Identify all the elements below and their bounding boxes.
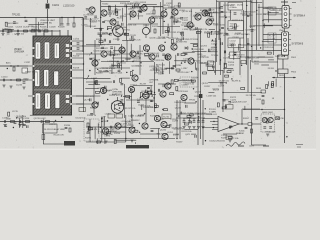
resistor R1209 bbox=[116, 11, 118, 15]
junction dots cluster bbox=[100, 17, 101, 18]
node dot bbox=[275, 70, 276, 71]
wire bbox=[183, 51, 195, 53]
capacitor C1266 bbox=[23, 124, 26, 125]
capacitor C1202 bbox=[84, 17, 87, 18]
wire bbox=[94, 127, 96, 140]
capacitor C1203 bbox=[17, 30, 18, 33]
wire x131.5 bbox=[131, 93, 133, 118]
wire bbox=[201, 62, 210, 64]
node junction bbox=[192, 48, 193, 49]
bottom right marks bbox=[238, 145, 269, 147]
wire rail x219 bbox=[218, 2, 220, 40]
capacitor C1262 bbox=[180, 112, 181, 115]
module left edge pin notches bbox=[33, 47, 35, 49]
capacitor C1246 bbox=[14, 122, 17, 123]
wire bbox=[138, 13, 140, 20]
wire bbox=[111, 64, 113, 75]
wire bbox=[268, 59, 274, 61]
wire bbox=[30, 114, 38, 116]
node junction bbox=[151, 93, 152, 94]
capacitor C1270 bbox=[232, 44, 233, 47]
wire to dashed box bbox=[252, 123, 261, 125]
delay line outline DL1201 bbox=[43, 124, 58, 133]
resistor R1245 bbox=[167, 28, 169, 32]
capacitor C1215 bbox=[77, 43, 80, 44]
capacitor C1268 bbox=[95, 81, 96, 84]
capacitor C1280 bbox=[4, 120, 5, 123]
wire bbox=[88, 83, 100, 85]
capacitor C1226 bbox=[171, 16, 174, 17]
resistor R1241 bbox=[189, 114, 193, 116]
capacitor C1246 bbox=[185, 53, 188, 54]
diode D1211 bbox=[87, 131, 90, 134]
wire bbox=[96, 138, 98, 144]
wire bbox=[90, 18, 92, 28]
resistor R1245 bbox=[184, 123, 188, 125]
wire y138.5 bbox=[100, 138, 175, 140]
filter can FL5 bbox=[44, 70, 49, 87]
wire vertical x100.7 bbox=[100, 0, 102, 45]
capacitor C1243 bbox=[197, 68, 198, 71]
wire Q1207 to Q1208 bbox=[107, 53, 130, 55]
wire bbox=[167, 24, 169, 36]
wire x36 stub bbox=[35, 18, 37, 32]
capacitor C1214 bbox=[115, 28, 118, 29]
capacitor C1201 bbox=[86, 9, 89, 10]
wire bbox=[183, 117, 196, 119]
filter can FL9 bbox=[55, 94, 60, 109]
wire bbox=[163, 141, 165, 143]
wire y8 bbox=[163, 7, 220, 9]
bottom right tiny marks bbox=[296, 145, 303, 148]
capacitor C1258 bbox=[101, 117, 102, 120]
capacitor C1252 bbox=[247, 15, 250, 16]
transistor Q1209 bbox=[143, 45, 149, 51]
transistor Q1211 bbox=[165, 54, 171, 60]
wire y134 bbox=[223, 133, 237, 135]
transistor Q602 bbox=[268, 117, 273, 122]
capacitor C1252 bbox=[224, 51, 225, 54]
pot VR1201 arrow bbox=[87, 76, 90, 80]
node dot bbox=[246, 5, 247, 6]
resistor R1285 bbox=[97, 141, 101, 143]
wire bbox=[22, 115, 24, 128]
wire y100 bbox=[126, 99, 154, 101]
wire bbox=[102, 87, 104, 93]
node junction bbox=[106, 134, 107, 135]
pin 2 bbox=[284, 38, 287, 41]
wire bbox=[85, 88, 99, 90]
capacitor C1239 bbox=[118, 70, 121, 71]
resistor R1226 bbox=[176, 87, 178, 91]
resistor box R1251 bbox=[208, 67, 214, 71]
transistor Q1213 bbox=[128, 86, 134, 92]
node junction bbox=[214, 71, 215, 72]
dashed box bottom left bbox=[84, 119, 99, 141]
junction dot bbox=[239, 44, 240, 45]
wire corner x83 bbox=[82, 18, 84, 53]
node junction bbox=[191, 71, 192, 72]
wire x248 bbox=[247, 38, 249, 92]
resistor R1226 bbox=[174, 20, 178, 22]
capacitor C1282 bbox=[221, 42, 222, 45]
wire x83.5 down bbox=[83, 18, 85, 113]
arrow comp bbox=[89, 53, 92, 56]
node junction bbox=[198, 116, 199, 117]
diode D1201 bbox=[185, 47, 188, 50]
wire y96 bbox=[76, 95, 100, 97]
wire rail x216.5 bbox=[216, 0, 218, 62]
bottom wire y143 bbox=[252, 144, 267, 146]
wire rail x243.5 bbox=[243, 10, 245, 38]
wire bbox=[111, 64, 122, 66]
capacitor C1270 bbox=[262, 95, 265, 96]
jumper box JW602 bbox=[278, 69, 288, 74]
capacitor C1228 bbox=[182, 37, 183, 40]
capacitor C1212 bbox=[228, 102, 231, 103]
capacitor C1207 bbox=[61, 24, 64, 25]
capacitor C1242 bbox=[213, 66, 214, 69]
capacitor C1240 bbox=[190, 121, 191, 124]
capacitor C1239 bbox=[234, 28, 237, 29]
long vertical wire x284.5 bbox=[284, 74, 286, 144]
node junction bbox=[97, 69, 98, 70]
wire bbox=[223, 68, 233, 70]
node junction bbox=[226, 82, 227, 83]
cap stub 3 bbox=[193, 118, 195, 121]
capacitor C1206 bbox=[122, 23, 123, 26]
wire x240 bbox=[239, 38, 241, 75]
wire y24 mid bbox=[128, 23, 158, 25]
wire y44.5 bbox=[86, 44, 120, 46]
resistor R1211 bbox=[17, 79, 21, 81]
transistor Q1241 bbox=[206, 19, 212, 25]
capacitor C1241 bbox=[137, 101, 140, 102]
capacitor C1202 bbox=[2, 30, 3, 33]
coil T1204 labeled box bbox=[228, 21, 244, 31]
cap stub 4 bbox=[198, 118, 200, 121]
node dot bbox=[139, 6, 140, 7]
wire x110 bbox=[109, 7, 111, 17]
capacitor C1209 bbox=[158, 89, 159, 92]
node dot bbox=[224, 15, 225, 16]
capacitor C1208 bbox=[100, 34, 101, 37]
scan edge bottom strip bbox=[0, 149, 316, 150]
wire x220.5 bbox=[220, 38, 222, 75]
top right corner mark bbox=[292, 2, 296, 4]
wire bbox=[141, 105, 143, 110]
node junction bbox=[205, 140, 206, 141]
wire bbox=[130, 44, 132, 56]
scan noise overlay bbox=[0, 0, 316, 150]
wire +24V bus y17 bbox=[0, 17, 83, 19]
capacitor C1298 bbox=[105, 86, 106, 89]
wire top border segment bbox=[101, 0, 252, 2]
wires into connector A bbox=[263, 9, 282, 26]
resistor R1205 bbox=[108, 26, 112, 28]
ground gnd3 bbox=[2, 85, 5, 87]
node junction bbox=[286, 136, 287, 137]
capacitor C1220 bbox=[133, 5, 134, 8]
wire x90 bbox=[89, 119, 91, 142]
wire bbox=[191, 133, 196, 135]
node junction bbox=[100, 127, 101, 128]
resistor R1213 bbox=[182, 32, 184, 36]
wire bbox=[175, 55, 177, 68]
stub x74 bbox=[73, 18, 75, 24]
capacitor C1251 bbox=[13, 22, 16, 23]
capacitor C602 bbox=[269, 127, 272, 128]
transistor Q1221 bbox=[154, 115, 160, 121]
capacitor C1231 bbox=[171, 68, 174, 69]
node junction bbox=[193, 88, 194, 89]
wire y66 bbox=[0, 65, 28, 67]
capacitor C601 bbox=[263, 127, 266, 128]
wire between boxes bbox=[282, 59, 284, 69]
node junction bbox=[165, 9, 166, 10]
capacitor C1222 bbox=[180, 18, 183, 19]
wire bbox=[121, 77, 130, 79]
handwritten mark bbox=[226, 142, 245, 146]
capacitor C1202 bbox=[139, 11, 142, 12]
wire bbox=[262, 41, 274, 43]
wire x160.5 bbox=[160, 2, 162, 36]
wire bbox=[29, 23, 45, 25]
resistor right of opamp bbox=[251, 129, 253, 133]
delta mark bbox=[150, 89, 152, 91]
node dot bbox=[83, 63, 84, 64]
resistor R1218 bbox=[205, 13, 209, 15]
junction dots on x246.7 bbox=[246, 34, 247, 35]
capacitor C1252 bbox=[163, 84, 164, 87]
wire x246.7 bbox=[246, 0, 248, 65]
capacitor C1225 bbox=[137, 51, 138, 54]
transistor Q1206 bbox=[202, 10, 208, 16]
transistor Q1216 bbox=[160, 91, 166, 97]
transistor Q1224 bbox=[161, 11, 167, 17]
wire x251.5 bbox=[251, 75, 253, 145]
delay line DL1 bbox=[22, 68, 28, 73]
wire bbox=[121, 8, 123, 22]
resistor R1244 bbox=[8, 112, 10, 116]
wire y61.5 bbox=[101, 61, 154, 63]
resistor R1270 bbox=[262, 100, 264, 104]
component column x263 bbox=[261, 90, 266, 93]
wire x198 bbox=[197, 30, 199, 145]
coil L1205 labeled box bbox=[228, 2, 243, 10]
wire y78.4 bbox=[84, 77, 111, 79]
wire x256.7 bbox=[252, 0, 257, 62]
wire bbox=[97, 123, 99, 133]
wire bbox=[115, 5, 117, 15]
resistor R1233 bbox=[171, 39, 173, 43]
transistor Q1217 bbox=[181, 94, 187, 100]
transistor Q1210 bbox=[159, 45, 165, 51]
filter can FL4 bbox=[35, 70, 40, 87]
wire x163 vertical bbox=[162, 0, 164, 34]
capacitor C1209 bbox=[205, 10, 206, 13]
wire bbox=[230, 44, 236, 46]
capacitor C1265 bbox=[121, 100, 124, 101]
transistor Q1220 bbox=[142, 123, 148, 129]
node junction bbox=[132, 70, 133, 71]
wire bbox=[253, 25, 273, 27]
wire x220 bbox=[219, 2, 221, 65]
caps column x152 bbox=[151, 100, 154, 101]
wire x277.5 bbox=[277, 55, 279, 78]
wire block right y78 bbox=[76, 77, 84, 79]
capacitor C1222 bbox=[109, 40, 110, 43]
capacitor C1281 bbox=[19, 120, 20, 123]
capacitor C1206 bbox=[109, 34, 112, 35]
IF transformer T1201 bbox=[113, 26, 124, 37]
resistor R1296 bbox=[120, 78, 122, 82]
capacitor C1278 bbox=[169, 125, 172, 126]
wire bbox=[192, 51, 207, 53]
wire bbox=[204, 12, 220, 14]
wire bbox=[261, 64, 269, 66]
node junction bbox=[122, 60, 123, 61]
resistor R1282 bbox=[26, 121, 30, 123]
wire bbox=[113, 54, 115, 67]
wire bbox=[168, 61, 170, 74]
node junction bbox=[181, 62, 182, 63]
wire y127 bbox=[86, 126, 125, 128]
filter can FL3 bbox=[54, 43, 59, 59]
ground gnd8 bbox=[18, 125, 21, 127]
delta mark bbox=[150, 100, 152, 102]
node dot bbox=[176, 138, 177, 139]
node junction bbox=[107, 99, 108, 100]
transistor Q1239 bbox=[171, 44, 177, 50]
node junction bbox=[107, 29, 108, 30]
resistor R1260 bbox=[96, 81, 98, 85]
capacitor C1253 bbox=[251, 30, 254, 31]
wire bbox=[110, 50, 112, 57]
wire bbox=[190, 42, 198, 44]
wire bbox=[3, 28, 14, 30]
resistor R1236 bbox=[193, 45, 197, 47]
transistor Q1230 bbox=[89, 7, 95, 13]
wire x95 bbox=[94, 40, 96, 75]
wire x126.7 vertical bbox=[126, 7, 128, 40]
wire bbox=[223, 63, 225, 73]
resistor R1233 bbox=[126, 95, 130, 97]
capacitor C1271 bbox=[110, 126, 111, 129]
wire bbox=[238, 44, 240, 51]
wire y121.5 bus bbox=[0, 121, 71, 123]
transistor Q1202 bbox=[130, 11, 136, 17]
resistor R1251 bbox=[118, 104, 122, 106]
node dot bbox=[213, 121, 214, 122]
resistor R1251 bbox=[145, 53, 149, 55]
node junction bbox=[144, 113, 145, 114]
caption strip bbox=[126, 145, 149, 148]
label boxes x163 bbox=[162, 114, 171, 119]
ground gnd4 bbox=[9, 86, 12, 88]
node junction bbox=[139, 132, 140, 133]
module mid light seams bbox=[34, 64, 70, 66]
resistor R1250 bbox=[225, 75, 229, 77]
wire bbox=[143, 94, 156, 96]
wire bbox=[18, 118, 20, 128]
transistor Q1237 bbox=[92, 102, 98, 108]
resistor R1290 bbox=[87, 123, 89, 127]
wire y77 with dots bbox=[272, 77, 296, 79]
pin 4 bbox=[284, 49, 287, 52]
node dot bbox=[256, 10, 257, 11]
wire bbox=[177, 80, 194, 82]
wire y84 bbox=[158, 83, 176, 85]
wire bbox=[104, 138, 106, 144]
wire x47.5 stub bbox=[47, 18, 49, 29]
resistor R1283 bbox=[114, 140, 116, 144]
label box under block right bbox=[79, 108, 86, 112]
wire y92.5 right bbox=[223, 92, 262, 94]
capacitor C1288 bbox=[121, 83, 124, 84]
wire y46 bbox=[84, 45, 100, 47]
wire bbox=[233, 47, 235, 59]
resistor R1209 bbox=[73, 23, 75, 27]
pin 3 bbox=[284, 44, 287, 47]
wire x127 bbox=[126, 40, 128, 62]
node dot bbox=[126, 6, 127, 7]
capacitor C1240 bbox=[97, 102, 98, 105]
capacitor C1286 bbox=[122, 104, 125, 105]
module X1201 shield body bbox=[33, 36, 72, 115]
transistor Q1219 bbox=[129, 127, 135, 133]
wire bbox=[244, 106, 246, 110]
wire x177 up bbox=[176, 100, 178, 119]
wire below connector B bbox=[284, 55, 286, 57]
node junction bbox=[162, 109, 163, 110]
node dot bbox=[241, 123, 242, 124]
label box right column a bbox=[268, 7, 276, 15]
capacitor C1240 bbox=[221, 27, 224, 28]
scan speckle overlay bbox=[0, 0, 316, 150]
resistor R1210 bbox=[135, 4, 139, 6]
resistor R1295 bbox=[248, 123, 252, 126]
wire bbox=[272, 97, 274, 99]
capacitor C1233 bbox=[90, 113, 93, 114]
node junction bbox=[164, 42, 165, 43]
capacitor C1204 bbox=[39, 30, 40, 33]
ground gnd10 bbox=[130, 140, 133, 142]
wire bbox=[131, 114, 133, 126]
wire x154.5 extend bbox=[154, 62, 156, 70]
node dot bbox=[82, 45, 83, 46]
node junction bbox=[119, 107, 120, 108]
filter can FL7 bbox=[35, 93, 40, 109]
dashed label box mid bbox=[180, 77, 198, 87]
transistor Q1225 bbox=[195, 14, 201, 20]
node dot bbox=[24, 17, 25, 18]
transistor Q1231 bbox=[110, 19, 116, 25]
resistor R1256 bbox=[88, 126, 90, 130]
transistor Q1214 bbox=[143, 92, 149, 98]
node dot bbox=[125, 138, 126, 139]
resistor R1204 bbox=[44, 30, 48, 32]
resistor box R1250 bbox=[208, 61, 214, 65]
wire bbox=[150, 128, 160, 130]
capacitor C1220 stub bbox=[139, 7, 141, 10]
wire y82 bbox=[86, 81, 112, 83]
capacitor C1222 bbox=[132, 36, 133, 39]
node junction bbox=[111, 103, 112, 104]
capacitor C1272 bbox=[255, 118, 258, 119]
filter can FL8 bbox=[45, 93, 50, 109]
filter can FL2 bbox=[44, 42, 49, 59]
